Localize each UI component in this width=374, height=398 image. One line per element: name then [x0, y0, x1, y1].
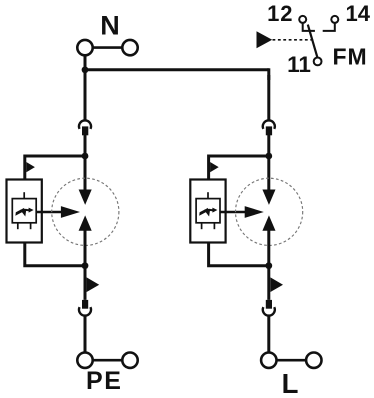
svg-text:12: 12 — [267, 1, 293, 26]
svg-text:N: N — [100, 10, 120, 40]
svg-text:PE: PE — [86, 367, 122, 395]
svg-text:FM: FM — [333, 44, 368, 70]
svg-text:11: 11 — [287, 52, 311, 77]
svg-text:L: L — [282, 368, 299, 398]
svg-text:14: 14 — [346, 1, 371, 26]
